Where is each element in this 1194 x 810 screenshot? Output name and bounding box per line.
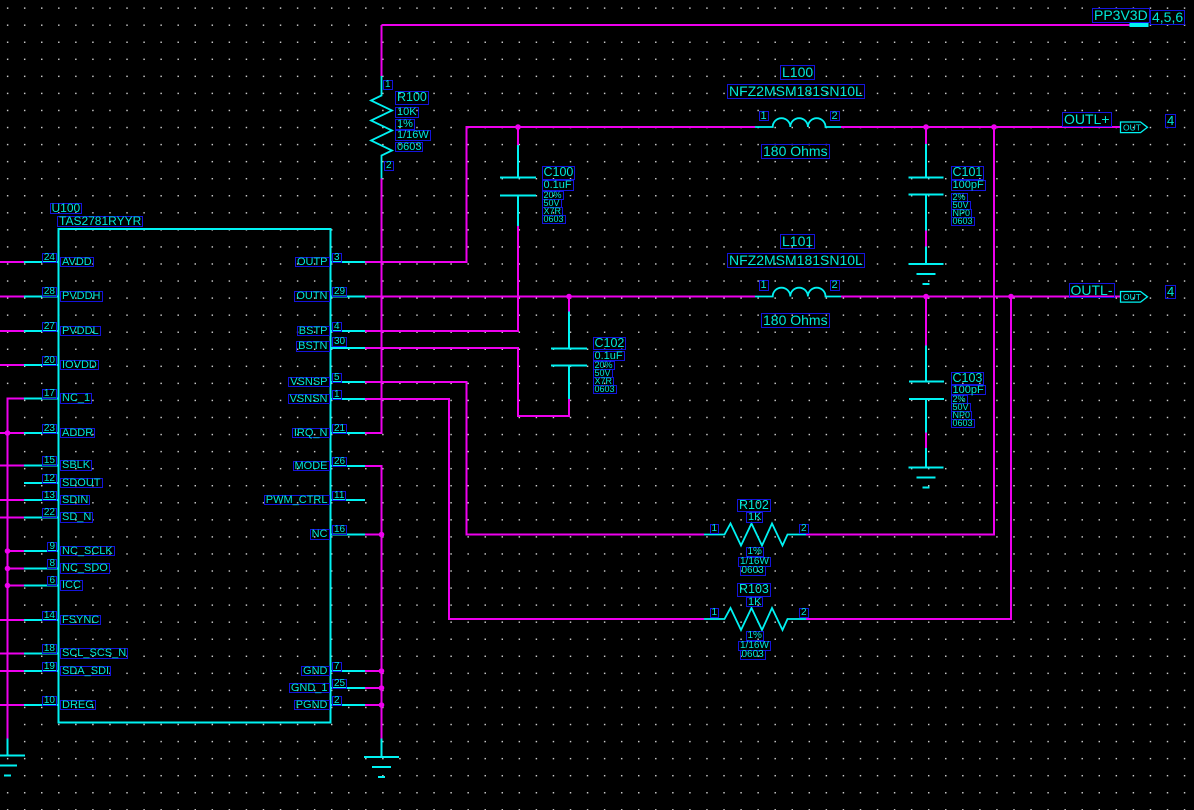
pin 1 of R102 bbox=[710, 524, 720, 534]
U100 pin number 16 (NC) bbox=[332, 525, 347, 535]
junction ADDR bbox=[5, 430, 11, 436]
U100 pin name PVDDL bbox=[60, 326, 101, 337]
junction C103 bbox=[923, 294, 929, 300]
U100 pin name FSYNC bbox=[60, 615, 101, 626]
U100 pin name IOVDD bbox=[60, 360, 99, 371]
C101 dielectric NP0 bbox=[951, 209, 973, 218]
U100 pin number 25 (GND_1) bbox=[332, 679, 347, 689]
U100 pin name GND_1 bbox=[289, 683, 330, 694]
wire FSYNC pin 14 bbox=[0, 619, 24, 621]
wire NC pin 16 branch bbox=[365, 534, 382, 536]
capacitor C103 refdes bbox=[951, 372, 985, 386]
pin 2 of L101 bbox=[830, 280, 840, 291]
junction GND_1 bbox=[379, 685, 385, 691]
U100 pin number 20 (IOVDD) bbox=[42, 356, 57, 366]
C103 package 0603 bbox=[951, 419, 975, 428]
U100 pin name NC_1 bbox=[60, 393, 92, 404]
wire SDA_SDI pin 19 bbox=[0, 670, 24, 672]
U100 pin number 24 (AVDD) bbox=[42, 253, 57, 263]
wire C103 top stub bbox=[925, 297, 927, 346]
C100 dielectric X7R bbox=[542, 207, 564, 216]
R100 tolerance 1% bbox=[395, 119, 415, 130]
capacitor C100 bbox=[500, 145, 536, 226]
wire BSTN to C102 bottom bbox=[365, 348, 569, 416]
C103 dielectric NP0 bbox=[951, 411, 973, 420]
wire NC_SCLK branch bbox=[8, 550, 25, 552]
R100 power 1/16W bbox=[395, 130, 431, 141]
C102 tolerance 20% bbox=[593, 361, 615, 370]
C103 voltage 50V bbox=[951, 403, 971, 412]
U100 pin number 17 (NC_1) bbox=[42, 389, 57, 399]
net PP3V3D pages 4,5,6 bbox=[1150, 10, 1185, 25]
pin 2 of L100 bbox=[830, 111, 840, 122]
wire IOVDD pin 20 bbox=[0, 364, 24, 366]
junction NC bbox=[379, 532, 385, 538]
C101 value 100pF bbox=[951, 180, 986, 191]
wire C101 top stub bbox=[925, 127, 927, 144]
U100 pin number 11 (PWM_CTRL) bbox=[332, 491, 346, 501]
R103 package 0603 bbox=[740, 650, 766, 660]
U100 pin name ICC bbox=[60, 580, 83, 591]
wire net PP3V3D top rail bbox=[382, 24, 1148, 26]
C102 package 0603 bbox=[593, 385, 617, 394]
U100 pin number 21 (IRQ_N) bbox=[332, 424, 347, 434]
R103 value 1K bbox=[746, 597, 763, 608]
C100 value 0.1uF bbox=[542, 180, 574, 191]
wire OUTP to OUTL+ rail bbox=[365, 127, 755, 262]
U100 pin name OUTP bbox=[295, 257, 330, 268]
wire R102 to OUTL+ feedback bbox=[806, 127, 994, 535]
wire VSNSP to R102 bbox=[365, 382, 704, 535]
L100 part NFZ2MSM181SN10L bbox=[727, 84, 865, 99]
net label PP3V3D bbox=[1092, 8, 1150, 23]
C100 voltage 50V bbox=[542, 199, 562, 208]
R103 tolerance 1% bbox=[746, 631, 764, 641]
U100 pin number 1 (VSNSN) bbox=[332, 390, 342, 400]
U100 pin number 26 (MODE) bbox=[332, 457, 347, 467]
wire SBLK pin 15 bbox=[0, 465, 24, 467]
U100 pin number 4 (BSTP) bbox=[332, 322, 342, 332]
inductor L101 refdes bbox=[780, 234, 815, 249]
capacitor C103 bbox=[909, 346, 944, 433]
U100 pin number 15 (SBLK) bbox=[42, 456, 57, 466]
U100 pin name SD_N bbox=[60, 512, 93, 523]
junction R102 OUTL+ bbox=[991, 124, 997, 130]
wire PVDDH pin 28 bbox=[0, 296, 24, 298]
U100 pin name DREG bbox=[60, 700, 96, 711]
U100 pin name IRQ_N bbox=[292, 428, 330, 439]
wire VSNSN to R103 bbox=[365, 399, 704, 619]
junction C100 OUTP bbox=[515, 124, 521, 130]
capacitor C100 refdes bbox=[542, 166, 576, 180]
wire SD_N pin 22 bbox=[0, 517, 24, 519]
U100 pin number 12 (SDOUT) bbox=[42, 474, 57, 484]
U100 pin name VSNSP bbox=[288, 377, 329, 388]
port OUTL- OUT symbol bbox=[1121, 292, 1148, 303]
U100 pin number 18 (SCL_SCS_N) bbox=[42, 644, 57, 654]
inductor L101 bbox=[755, 288, 841, 297]
wire SDIN pin 13 bbox=[0, 499, 24, 501]
wire OUTN to L101 bbox=[365, 296, 755, 298]
U100 left pin stubs bbox=[24, 262, 59, 705]
pin 1 of L100 bbox=[759, 111, 769, 122]
net label OUTL+ bbox=[1062, 112, 1112, 127]
svg-text:OUT: OUT bbox=[1123, 292, 1141, 302]
wire NC_SDO branch bbox=[8, 568, 25, 570]
resistor R103 bbox=[704, 608, 806, 630]
junction ICC bbox=[5, 583, 11, 589]
resistor R102 refdes bbox=[737, 499, 771, 513]
R102 package 0603 bbox=[740, 566, 766, 576]
U100 pin number 14 (FSYNC) bbox=[42, 611, 57, 621]
U100 pin name NC bbox=[310, 529, 330, 540]
junction C101 bbox=[923, 124, 929, 130]
U100 right pin stubs bbox=[331, 262, 366, 705]
wire ICC branch bbox=[8, 585, 25, 587]
ground left column bbox=[0, 739, 25, 776]
resistor R103 refdes bbox=[737, 583, 771, 597]
U100 pin name BSTN bbox=[296, 341, 329, 352]
U100 pin name ADDR bbox=[60, 428, 95, 439]
wire C102 top stub bbox=[568, 297, 570, 312]
U100 refdes bbox=[50, 203, 83, 215]
capacitor C101 refdes bbox=[951, 166, 985, 180]
resistor R100 refdes bbox=[395, 91, 429, 105]
U100 pin number 8 (NC_SDO) bbox=[47, 559, 57, 569]
C100 tolerance 20% bbox=[542, 191, 564, 200]
junction NC_SCLK bbox=[5, 548, 11, 554]
pin 1 of L101 bbox=[759, 280, 769, 291]
net label OUTL- bbox=[1069, 283, 1115, 298]
op-amp U100 body TAS2781RYYR bbox=[59, 229, 331, 723]
junction NC_SDO bbox=[5, 566, 11, 572]
U100 pin name VSNSN bbox=[288, 394, 330, 405]
U100 pin number 19 (SDA_SDI) bbox=[42, 662, 57, 672]
wire C101 to ground bbox=[925, 231, 927, 247]
C102 value 0.1uF bbox=[593, 351, 625, 362]
capacitor C101 bbox=[909, 144, 944, 231]
C102 dielectric X7R bbox=[593, 377, 615, 386]
wire PGND pin 2 branch bbox=[365, 704, 382, 706]
capacitor C102 bbox=[551, 312, 587, 400]
wire R103 to OUTL- feedback bbox=[806, 297, 1011, 620]
wire DREG pin 10 bbox=[0, 704, 24, 706]
U100 pin name PGND bbox=[294, 700, 330, 711]
L101 part NFZ2MSM181SN10L bbox=[727, 253, 865, 268]
junction GND bbox=[379, 668, 385, 674]
pin 2 of R102 bbox=[799, 524, 809, 534]
port OUTL+ OUT symbol bbox=[1121, 122, 1148, 133]
port OUTL+ page 4 bbox=[1165, 114, 1176, 128]
U100 pin number 7 (GND) bbox=[332, 662, 342, 672]
pin 2 of R100 bbox=[384, 161, 394, 171]
U100 pin name PWM_CTRL bbox=[264, 495, 330, 506]
pin 2 of R103 bbox=[799, 608, 809, 618]
wire MODE to ground column bbox=[365, 466, 382, 739]
U100 pin name SCL_SCS_N bbox=[60, 648, 128, 659]
C101 package 0603 bbox=[951, 217, 975, 226]
inductor L100 bbox=[755, 118, 841, 127]
U100 pin number 29 (OUTN) bbox=[332, 287, 347, 297]
U100 pin number 10 (DREG) bbox=[42, 696, 57, 706]
U100 pin number 28 (PVDDH) bbox=[42, 287, 57, 297]
ground center column bbox=[364, 739, 399, 778]
U100 pin number 2 (PGND) bbox=[332, 696, 342, 706]
wire ADDR pin 23 bbox=[0, 432, 24, 434]
C101 voltage 50V bbox=[951, 201, 971, 210]
L100 value 180 Ohms bbox=[761, 144, 830, 159]
U100 pin name OUTN bbox=[294, 291, 329, 302]
R102 power 1/16W bbox=[738, 557, 771, 567]
U100 pin number 5 (VSNSP) bbox=[332, 373, 342, 383]
C100 package 0603 bbox=[542, 215, 566, 224]
C103 value 100pF bbox=[951, 385, 986, 396]
pin 1 of R100 bbox=[383, 80, 393, 90]
junction PGND bbox=[379, 702, 385, 708]
pin 1 of R103 bbox=[710, 608, 720, 618]
wire AVDD pin 24 bbox=[0, 261, 24, 263]
U100 pin number 6 (ICC) bbox=[47, 576, 57, 586]
U100 pin name PVDDH bbox=[60, 291, 103, 302]
wire R100 top riser bbox=[381, 25, 383, 76]
U100 part TAS2781RYYR bbox=[57, 216, 143, 228]
junction R103 OUTL- bbox=[1008, 294, 1014, 300]
inductor L100 refdes bbox=[780, 65, 815, 80]
U100 pin name GND bbox=[301, 666, 329, 677]
U100 pin number 13 (SDIN) bbox=[42, 491, 57, 501]
wire OUTL- rail after L101 bbox=[841, 296, 1121, 298]
R100 package 0603 bbox=[395, 142, 423, 153]
U100 pin name MODE bbox=[293, 461, 330, 472]
junction C102 OUTN bbox=[566, 294, 572, 300]
U100 pin name SBLK bbox=[60, 460, 92, 471]
ground C103 bbox=[909, 448, 944, 488]
U100 pin number 22 (SD_N) bbox=[42, 508, 57, 518]
wire C103 to ground bbox=[925, 433, 927, 449]
L101 value 180 Ohms bbox=[761, 313, 830, 328]
U100 pin number 9 (NC_SCLK) bbox=[47, 542, 57, 552]
U100 pin number 30 (BSTN) bbox=[332, 337, 347, 347]
U100 pin name NC_SCLK bbox=[60, 546, 115, 557]
R100 value 10K bbox=[395, 107, 419, 118]
wire C100 top stub bbox=[517, 127, 519, 145]
wire PVDDL pin 27 bbox=[0, 330, 24, 332]
wire GND_1 pin 25 branch bbox=[365, 687, 382, 689]
R102 value 1K bbox=[746, 512, 763, 523]
net PP3V3D marker bar bbox=[1130, 23, 1149, 27]
C103 tolerance 2% bbox=[951, 395, 968, 404]
ground C101 bbox=[909, 247, 944, 285]
C101 tolerance 2% bbox=[951, 193, 968, 202]
U100 pin name SDA_SDI bbox=[60, 666, 111, 677]
wire BSTP to C100 bbox=[365, 226, 518, 331]
wire SCL_SCS_N pin 18 bbox=[0, 653, 24, 655]
U100 pin number 23 (ADDR) bbox=[42, 424, 57, 434]
wire R100 bottom to pin IRQ_N bbox=[365, 179, 382, 434]
capacitor C102 refdes bbox=[593, 337, 627, 351]
U100 pin name BSTP bbox=[297, 326, 330, 337]
U100 pin number 27 (PVDDL) bbox=[42, 322, 57, 332]
wire GND pin 7 branch bbox=[365, 670, 382, 672]
resistor R102 bbox=[704, 524, 806, 546]
U100 pin number 3 (OUTP) bbox=[332, 253, 342, 263]
R102 tolerance 1% bbox=[746, 547, 764, 557]
resistor R100 bbox=[371, 76, 392, 179]
wire NC_1 to left ground column bbox=[8, 399, 25, 739]
C102 voltage 50V bbox=[593, 369, 613, 378]
port OUTL- page 4 bbox=[1165, 285, 1176, 299]
wire OUTL+ rail after L100 bbox=[841, 126, 1121, 128]
svg-text:OUT: OUT bbox=[1123, 123, 1141, 133]
U100 pin name SDOUT bbox=[60, 478, 103, 489]
U100 pin name NC_SDO bbox=[60, 563, 110, 574]
U100 pin name AVDD bbox=[60, 257, 94, 268]
U100 pin name SDIN bbox=[60, 495, 90, 506]
R103 power 1/16W bbox=[738, 641, 771, 651]
